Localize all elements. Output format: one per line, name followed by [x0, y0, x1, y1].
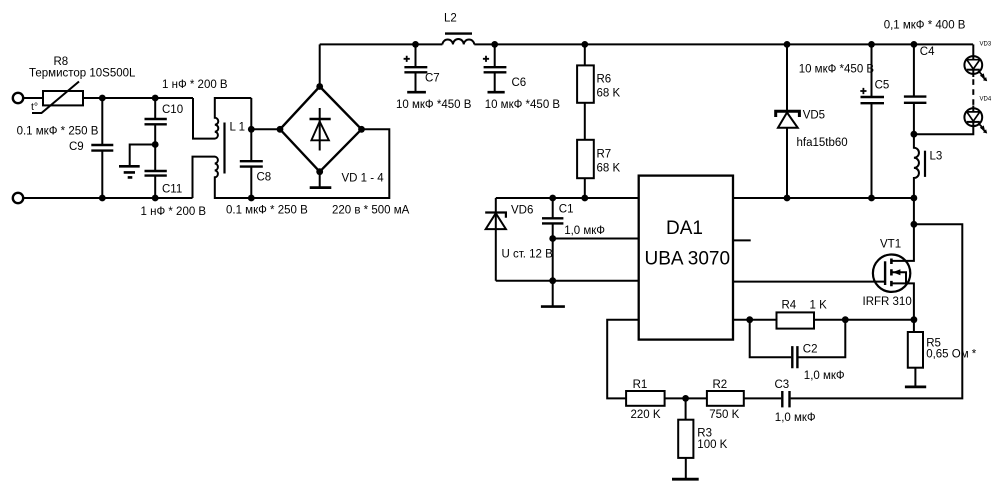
svg-text:Термистор 10S500L: Термистор 10S500L — [29, 68, 136, 80]
wire mid bus left of DA1 — [496, 197, 639, 199]
svg-text:68 K: 68 K — [597, 88, 621, 100]
svg-text:750 K: 750 K — [709, 409, 739, 421]
svg-text:0,65 Ом *: 0,65 Ом * — [926, 349, 977, 361]
ground earth symbol — [119, 145, 155, 178]
wire R2 to C3 — [744, 397, 781, 399]
svg-text:VD3: VD3 — [980, 41, 992, 47]
svg-text:0,1 мкФ * 400 В: 0,1 мкФ * 400 В — [884, 20, 966, 32]
capacitor C6 polarized — [483, 44, 561, 111]
svg-text:U ст. 12 В: U ст. 12 В — [502, 249, 554, 261]
svg-text:10 мкФ *450 В: 10 мкФ *450 В — [396, 99, 472, 111]
wire drain column — [913, 198, 915, 224]
node dot bridge left — [277, 126, 284, 133]
resistor R4 — [777, 300, 828, 329]
capacitor C9 — [17, 98, 114, 198]
wire C1 column down — [552, 239, 554, 307]
resistor R7 — [577, 140, 620, 198]
node dot drain / sense — [911, 221, 918, 228]
wire L1 node to bridge — [251, 128, 280, 130]
svg-text:C2: C2 — [803, 344, 818, 356]
svg-text:1,0 мкФ: 1,0 мкФ — [564, 225, 605, 237]
capacitor C1 — [542, 198, 605, 239]
node dot top rail / C10 — [152, 95, 159, 102]
node dot rail / C7 — [412, 41, 419, 48]
wire gate from DA1 — [733, 281, 885, 283]
capacitor C2 — [750, 320, 846, 382]
svg-text:R6: R6 — [597, 74, 612, 86]
svg-text:VT1: VT1 — [880, 238, 901, 250]
capacitor C10 — [145, 79, 228, 171]
svg-text:1 нФ * 200 В: 1 нФ * 200 В — [162, 79, 228, 91]
svg-text:L3: L3 — [930, 151, 943, 163]
node dot rail / VD5 — [784, 41, 791, 48]
svg-text:VD5: VD5 — [803, 110, 825, 122]
node dot R4 right / C2 — [842, 316, 849, 323]
node dot lower control line — [549, 277, 556, 284]
svg-text:C6: C6 — [512, 77, 527, 89]
node dot rail / R6 — [581, 41, 588, 48]
terminator bar below C1 column — [541, 305, 565, 308]
wire lower control line — [496, 280, 639, 282]
svg-text:R7: R7 — [597, 149, 612, 161]
svg-text:C7: C7 — [425, 73, 440, 85]
svg-text:220 K: 220 K — [631, 409, 661, 421]
svg-text:hfa15tb60: hfa15tb60 — [797, 137, 848, 149]
svg-text:0.1 мкФ * 250 В: 0.1 мкФ * 250 В — [226, 205, 308, 217]
resistor R6 — [577, 44, 620, 102]
wire top DC rail with L2 — [320, 43, 443, 45]
node dot mid bus / VD5 — [784, 195, 791, 202]
capacitor C5 polarized — [799, 44, 890, 198]
svg-text:1,0 мкФ: 1,0 мкФ — [804, 370, 845, 382]
svg-text:VD4: VD4 — [980, 97, 992, 103]
node dot bottom rail / C11 — [152, 195, 159, 202]
node dot L1 output — [248, 126, 255, 133]
inductor L2 — [442, 13, 474, 45]
svg-text:VD6: VD6 — [511, 205, 533, 217]
node dot mid bus / L3 / drain — [911, 195, 918, 202]
bridge inner diode — [310, 108, 331, 151]
terminal input bottom — [13, 193, 23, 203]
svg-text:R8: R8 — [54, 56, 69, 68]
svg-text:1 K: 1 K — [810, 300, 828, 312]
node dot bridge bottom — [316, 168, 323, 175]
node dot C1 tap — [549, 235, 556, 242]
wire top AC rail — [23, 97, 193, 99]
svg-text:VD 1 - 4: VD 1 - 4 — [342, 173, 385, 185]
node dot mid bus / C1 — [549, 195, 556, 202]
svg-text:220 в * 500 мА: 220 в * 500 мА — [332, 205, 410, 217]
svg-text:1,0 мкФ: 1,0 мкФ — [775, 412, 816, 424]
svg-text:C3: C3 — [775, 379, 790, 391]
svg-text:R4: R4 — [782, 300, 797, 312]
resistor R3 — [672, 398, 728, 479]
node dot R4 left / C2 — [746, 316, 753, 323]
wire mid bus right of DA1 — [733, 197, 914, 199]
svg-text:R3: R3 — [697, 428, 712, 440]
svg-text:C10: C10 — [162, 104, 183, 116]
svg-text:10 мкФ *450 В: 10 мкФ *450 В — [485, 99, 561, 111]
svg-text:C9: C9 — [69, 141, 84, 153]
node dot mid bus / R7 — [581, 195, 588, 202]
node dot top rail / C9 — [99, 95, 106, 102]
wire dashed LED string — [972, 79, 974, 105]
wire R4 row — [733, 319, 914, 321]
svg-text:R2: R2 — [713, 379, 728, 391]
inductor L1 common-mode choke winding 1 — [193, 98, 251, 139]
LED VD4 — [914, 106, 987, 135]
svg-text:DA1: DA1 — [666, 218, 703, 239]
wire sense line right column — [791, 224, 963, 398]
wire feedback left riser — [607, 320, 639, 399]
transistor VT1 MOSFET IRFR 310 — [863, 224, 914, 319]
svg-text:C8: C8 — [257, 172, 272, 184]
svg-text:C4: C4 — [920, 46, 935, 58]
node dot rail / C5 — [868, 41, 875, 48]
svg-text:C5: C5 — [875, 80, 890, 92]
node dot bridge top — [316, 83, 323, 90]
node dot bottom rail / C8 — [248, 195, 255, 202]
node dot bridge right — [358, 126, 365, 133]
svg-text:L 1: L 1 — [230, 122, 246, 134]
svg-text:R1: R1 — [633, 379, 648, 391]
LED VD3 — [964, 44, 987, 81]
wire bottom AC rail — [23, 197, 192, 199]
node dot bottom rail / C9 — [99, 195, 106, 202]
node dot rail / C4 — [911, 41, 918, 48]
wire DA1 stub pin — [733, 239, 751, 241]
bridge rectifier VD 1-4 diamond — [280, 87, 362, 172]
svg-text:t°: t° — [31, 101, 38, 113]
svg-text:L2: L2 — [444, 13, 457, 25]
capacitor C8 — [226, 98, 308, 217]
thermistor R8 — [29, 56, 136, 113]
svg-text:100 K: 100 K — [697, 439, 727, 451]
node dot C4 / L3 / LED return — [911, 131, 918, 138]
node dot source / R4 row / R5 — [911, 316, 918, 323]
svg-text:IRFR 310: IRFR 310 — [863, 296, 912, 308]
node dot C10/C11 midpoint — [152, 141, 159, 148]
resistor R1 — [626, 379, 665, 421]
resistor R5 — [905, 320, 977, 387]
capacitor C3 — [775, 379, 816, 424]
svg-text:C1: C1 — [559, 204, 574, 216]
inductor L1 core — [223, 123, 225, 174]
node dot mid bus / C5 — [868, 195, 875, 202]
wire R6 to R7 — [584, 103, 586, 140]
capacitor C11 — [141, 171, 207, 218]
capacitor C4 — [904, 44, 935, 134]
zener diode VD5 — [776, 44, 848, 198]
resistor R2 — [707, 379, 744, 421]
wire C1 tap to DA1 — [553, 238, 639, 240]
svg-text:0.1 мкФ * 250 В: 0.1 мкФ * 250 В — [17, 126, 99, 138]
wire bottom rail to bridge — [251, 129, 389, 198]
svg-text:68 K: 68 K — [597, 163, 621, 175]
svg-text:10 мкФ *450 В: 10 мкФ *450 В — [799, 64, 875, 76]
svg-text:1 нФ * 200 В: 1 нФ * 200 В — [141, 206, 207, 218]
wire top DC rail right — [474, 43, 973, 45]
capacitor C7 polarized — [396, 44, 472, 111]
wire R1 to R2 — [665, 397, 707, 399]
zener diode VD6 — [485, 198, 553, 281]
svg-text:UBA 3070: UBA 3070 — [645, 249, 731, 270]
svg-text:C11: C11 — [162, 183, 182, 195]
inductor L3 — [914, 134, 942, 198]
wire bridge top to DC rail — [319, 44, 321, 86]
node dot rail / C6 — [491, 41, 498, 48]
op-amp U1 : IC DA1 UBA 3070 — [639, 176, 733, 340]
node dot R1/R2/R3 — [682, 395, 689, 402]
inductor L1 winding 2 — [193, 157, 252, 198]
terminal input top — [13, 93, 23, 103]
bridge minus stub terminator — [310, 172, 332, 188]
